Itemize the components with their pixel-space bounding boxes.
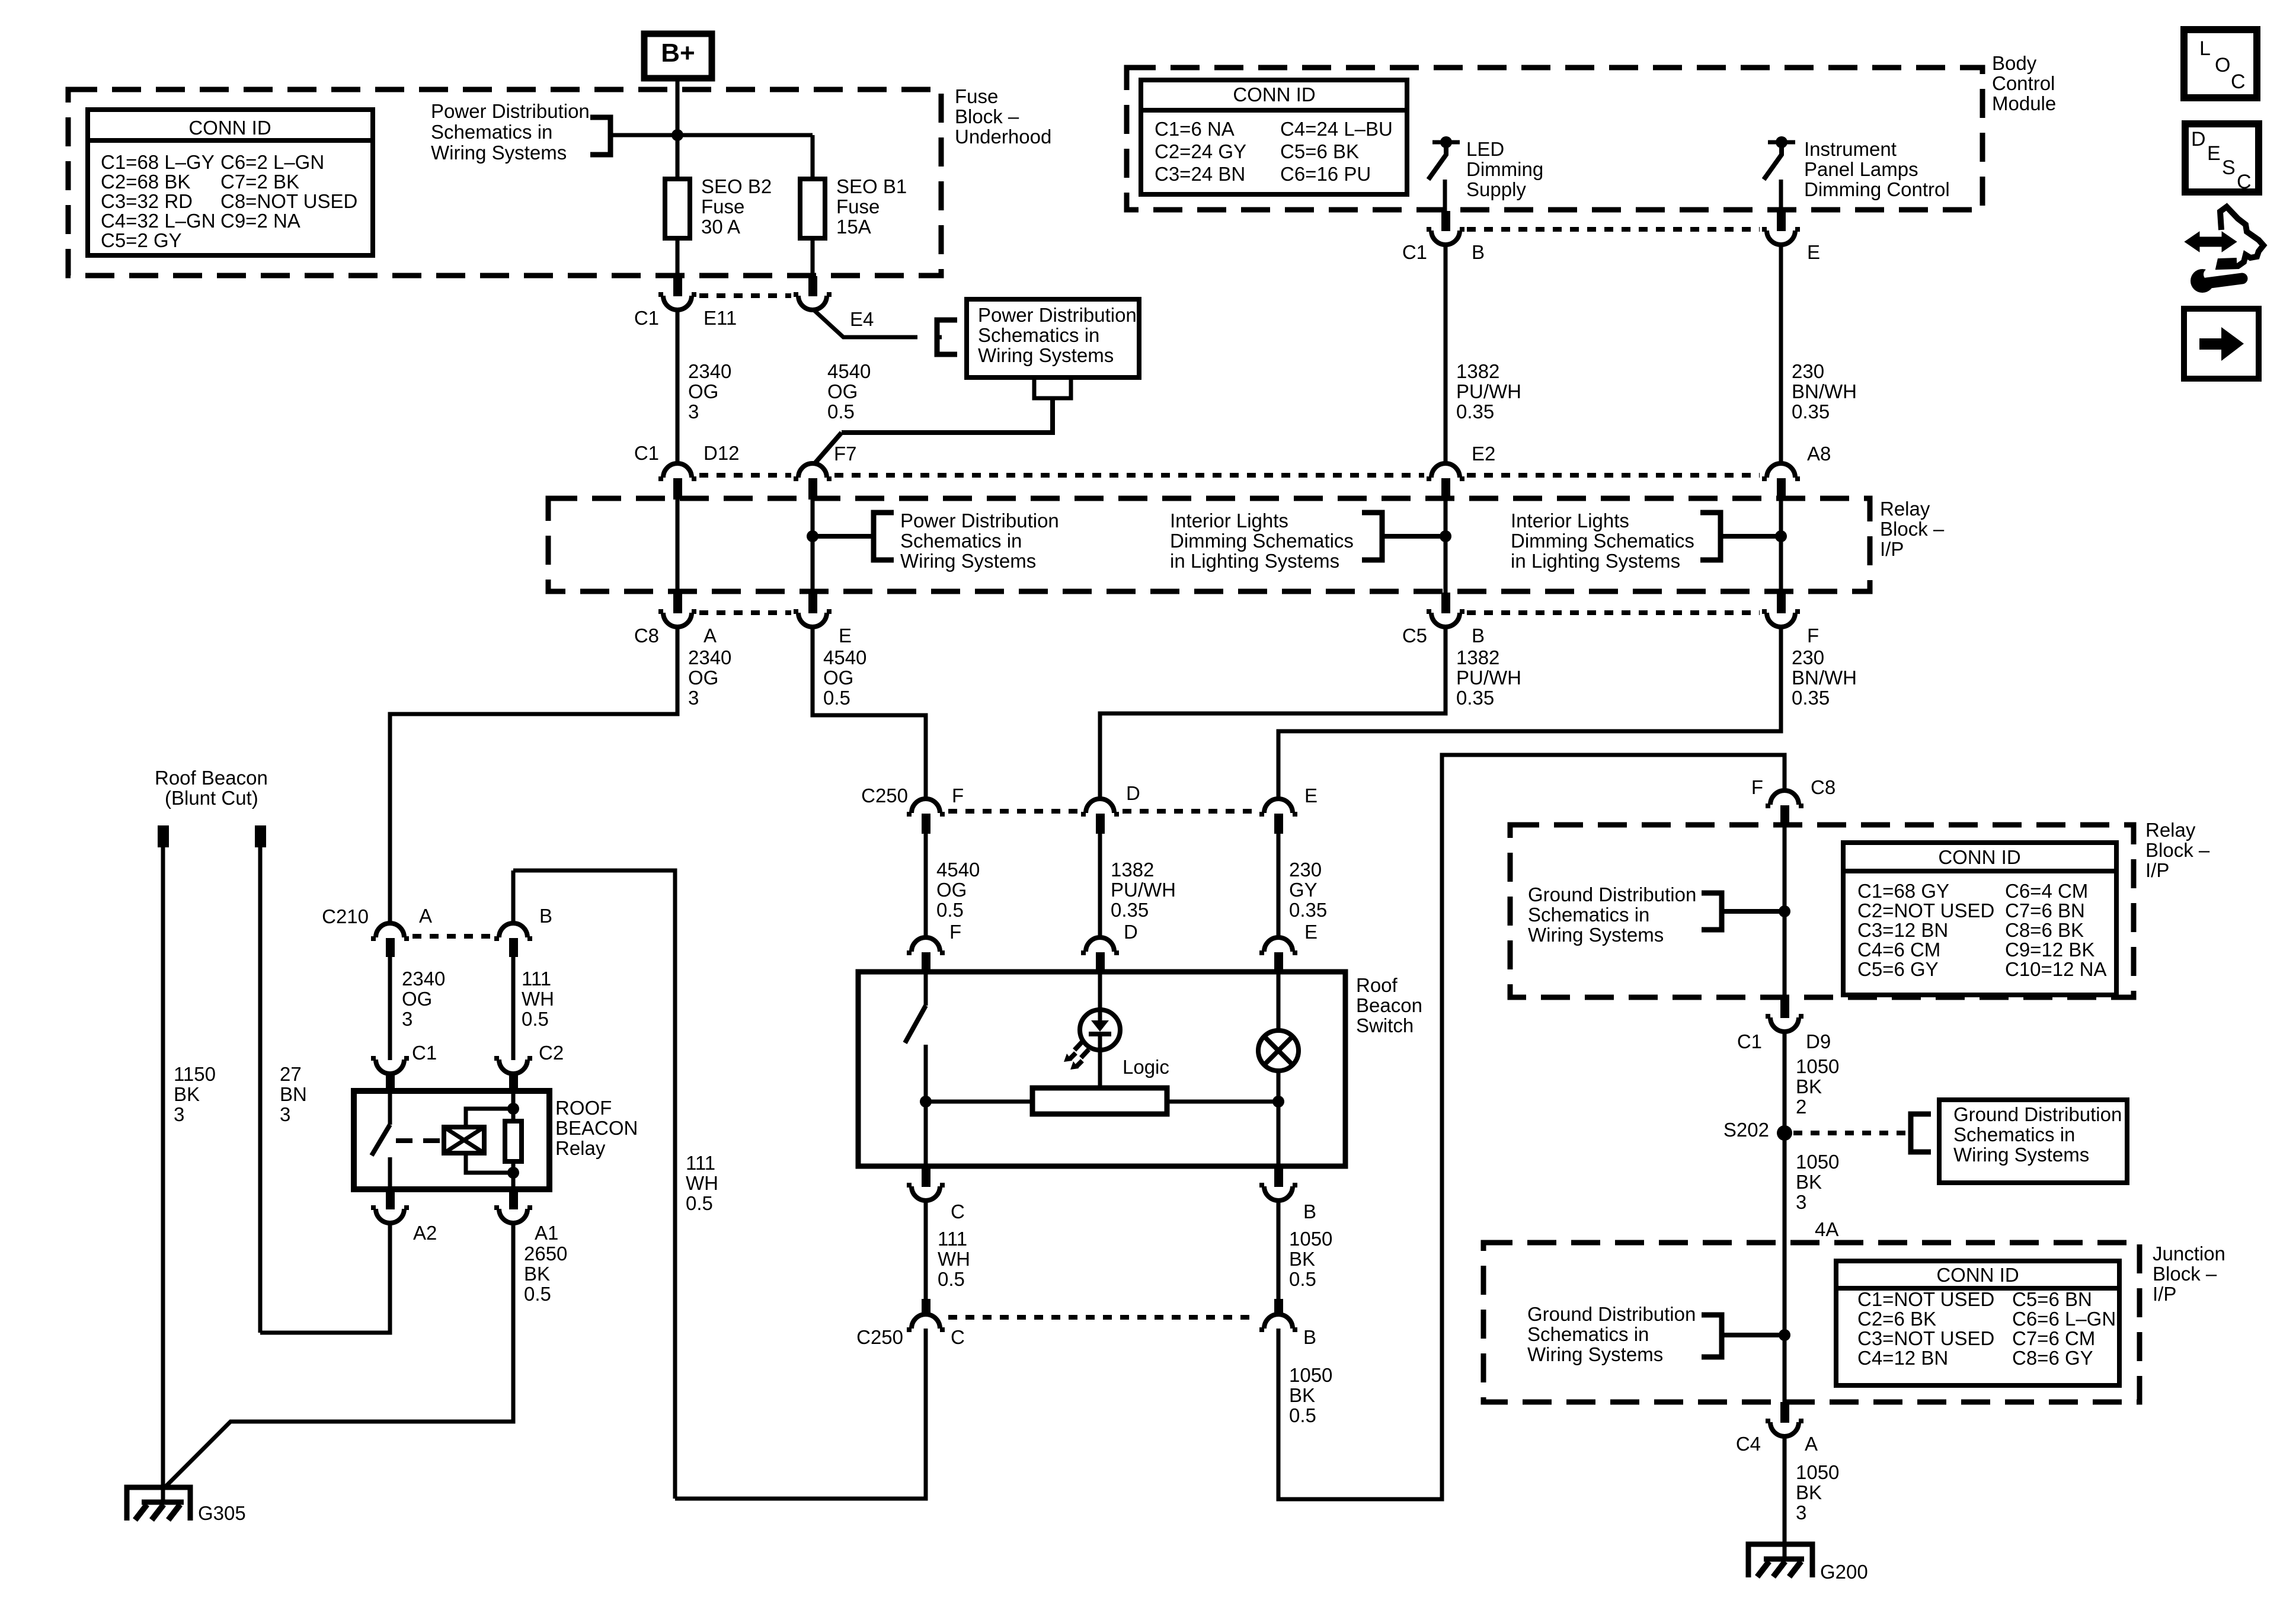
svg-text:0.5: 0.5: [938, 1268, 965, 1290]
connector C1-E11 pin: [673, 276, 682, 296]
wire C210 B to relay C2: [511, 957, 516, 1060]
svg-text:B: B: [1303, 1326, 1316, 1348]
connector C250 E dome: [1259, 799, 1297, 814]
svg-text:4540: 4540: [936, 859, 980, 881]
wire below switch blade: [924, 1045, 928, 1166]
connector dome F7: [794, 463, 832, 479]
blunt cut wire 27 BN: [258, 847, 263, 1333]
svg-text:E: E: [1304, 921, 1318, 943]
svg-text:0.35: 0.35: [1792, 401, 1830, 422]
svg-text:B: B: [1303, 1201, 1316, 1222]
connector C250-C dome: [907, 1314, 945, 1330]
connector row C cup B: [1427, 612, 1464, 627]
svg-text:0.5: 0.5: [823, 687, 850, 709]
CONN ID table (junction block): [1836, 1261, 2119, 1385]
svg-text:CONN ID: CONN ID: [188, 117, 271, 139]
svg-text:D: D: [1126, 782, 1140, 804]
svg-text:F7: F7: [834, 443, 857, 465]
connector switch-B cup: [1259, 1185, 1297, 1201]
relay mechanical linkage dashes: [396, 1138, 442, 1143]
svg-text:1382: 1382: [1456, 360, 1499, 382]
connector C4-A pin: [1780, 1402, 1789, 1423]
svg-text:O: O: [2215, 54, 2230, 76]
switch: instrument panel lamps dimming control output: [1768, 140, 1795, 145]
svg-text:230: 230: [1792, 360, 1824, 382]
svg-text:E: E: [839, 625, 852, 646]
wire diagonal into F7: [814, 433, 842, 465]
connector C1-E11 cup: [658, 295, 696, 310]
connector switch-D pin: [1096, 952, 1105, 974]
relay resistor: [511, 1091, 516, 1121]
svg-text:E: E: [1304, 785, 1318, 806]
svg-text:C4=24 L–BU: C4=24 L–BU: [1280, 118, 1393, 140]
svg-text:Ground Distribution: Ground Distribution: [1953, 1103, 2122, 1125]
svg-text:A: A: [1805, 1433, 1818, 1455]
relay coil parallel wiring: [466, 1109, 513, 1127]
svg-text:C3=12 BN: C3=12 BN: [1857, 919, 1948, 941]
svg-text:3: 3: [688, 401, 699, 422]
wire 1382 PU/WH from BCM B: [1444, 244, 1448, 463]
blunt cut wire 1150 BK: [161, 847, 165, 1502]
connector BCM C1-B pin: [1441, 211, 1450, 231]
connector C250-B pin: [1274, 1299, 1283, 1315]
svg-text:4540: 4540: [827, 360, 871, 382]
svg-text:Roof: Roof: [1356, 974, 1398, 996]
wire through relay block (4540): [811, 498, 815, 594]
svg-text:0.35: 0.35: [1792, 687, 1830, 709]
connector row C pin B: [1441, 593, 1450, 613]
svg-text:0.35: 0.35: [1111, 899, 1149, 921]
svg-text:A8: A8: [1807, 443, 1831, 465]
svg-text:C5=2 GY: C5=2 GY: [101, 229, 182, 251]
svg-text:in Lighting Systems: in Lighting Systems: [1511, 550, 1680, 572]
connector C250 F pin: [922, 814, 930, 834]
svg-text:C4=12 BN: C4=12 BN: [1857, 1347, 1948, 1369]
wire 111 WH riser from C210 B: [513, 870, 675, 1499]
svg-text:C: C: [2231, 71, 2246, 93]
svg-text:Power Distribution: Power Distribution: [900, 510, 1059, 532]
connector switch-B pin: [1274, 1166, 1283, 1187]
blunt cut wire 1150 BK terminal: [158, 825, 169, 847]
connector C1-D9 pin: [1780, 997, 1789, 1018]
svg-text:Schematics in: Schematics in: [978, 324, 1099, 346]
logic block: [1032, 1088, 1167, 1114]
svg-text:BK: BK: [1289, 1384, 1315, 1406]
connector pin F7: [808, 478, 817, 500]
svg-text:230: 230: [1792, 646, 1824, 668]
svg-text:Fuse: Fuse: [955, 85, 998, 107]
wire B down and right U to ground riser: [1278, 755, 1785, 1499]
svg-text:C6=2 L–GN: C6=2 L–GN: [220, 151, 324, 173]
junction block dashed boundary: [1483, 1243, 2140, 1402]
svg-text:C3=NOT USED: C3=NOT USED: [1857, 1327, 1994, 1349]
relay block 2 dashed boundary: [1510, 825, 2134, 997]
connector switch-E pin: [1274, 952, 1283, 974]
dotted connector line B-E (BCM): [1467, 227, 1760, 232]
body control module dashed boundary: [1127, 68, 1982, 210]
svg-text:OG: OG: [402, 988, 432, 1010]
wire lamp down: [1277, 1071, 1281, 1166]
connector C1-E4 pin: [808, 276, 817, 296]
svg-text:Fuse: Fuse: [701, 196, 744, 217]
node lamp to logic: [1272, 1096, 1284, 1108]
svg-text:C7=6 BN: C7=6 BN: [2005, 900, 2085, 921]
switch: LED dimming supply output: [1432, 140, 1460, 145]
svg-text:1382: 1382: [1456, 646, 1499, 668]
svg-text:Wiring Systems: Wiring Systems: [978, 344, 1114, 366]
svg-text:1050: 1050: [1796, 1055, 1839, 1077]
svg-text:Dimming Schematics: Dimming Schematics: [1170, 530, 1354, 552]
DESC button: [2185, 124, 2259, 192]
lamp (roof beacon indicator): [1258, 1030, 1299, 1071]
svg-text:Module: Module: [1992, 92, 2056, 114]
node at B+ feed junction: [671, 129, 683, 141]
connector switch-F pin: [922, 952, 930, 974]
svg-text:0.5: 0.5: [936, 899, 964, 921]
svg-text:Relay: Relay: [1880, 498, 1930, 520]
dotted connector line D-E (C250): [1123, 809, 1256, 814]
svg-text:C1: C1: [634, 307, 659, 329]
svg-text:111: 111: [938, 1228, 967, 1250]
svg-text:Dimming Control: Dimming Control: [1804, 178, 1950, 200]
connector switch-F dome: [907, 937, 945, 953]
connector pin A8: [1777, 478, 1786, 500]
svg-text:A: A: [703, 625, 717, 646]
callout bracket + wire (ground dist relay block 2): [1702, 893, 1722, 930]
svg-text:Schematics in: Schematics in: [431, 121, 552, 143]
svg-text:Relay: Relay: [2145, 819, 2196, 841]
svg-text:E2: E2: [1472, 443, 1495, 465]
callout bracket (power distribution mid): [937, 320, 957, 354]
connector C210-A dome: [371, 923, 409, 939]
connector dome D12: [658, 463, 696, 479]
wire logic to lamp node: [1167, 1100, 1278, 1104]
svg-text:Roof Beacon: Roof Beacon: [155, 767, 268, 789]
connector C250 E pin: [1274, 814, 1283, 834]
wire B+ down to fuse SEO B2: [676, 78, 680, 276]
svg-text:0.5: 0.5: [522, 1008, 549, 1030]
wire 230 BN/WH from BCM E: [1779, 244, 1783, 463]
connector switch-C cup: [907, 1185, 945, 1201]
callout stub below box to F7: [1034, 377, 1071, 398]
wire 230 GY to switch: [1277, 833, 1281, 939]
svg-text:C9=12 BK: C9=12 BK: [2005, 939, 2094, 961]
relay block I/P dashed boundary: [548, 498, 1870, 591]
svg-text:D9: D9: [1806, 1030, 1831, 1052]
svg-text:D: D: [2191, 128, 2206, 151]
connector relay A2 pin: [386, 1189, 395, 1209]
svg-text:C: C: [951, 1201, 965, 1222]
svg-text:Schematics in: Schematics in: [1528, 904, 1649, 926]
svg-text:1050: 1050: [1796, 1461, 1839, 1483]
connector row C pin A: [673, 593, 682, 613]
svg-text:OG: OG: [936, 879, 967, 901]
wire 1382 route to C250 D: [1100, 627, 1446, 800]
connector dome E2: [1427, 463, 1464, 479]
svg-text:C7=6 CM: C7=6 CM: [2012, 1327, 2095, 1349]
svg-text:CONN ID: CONN ID: [1938, 846, 2020, 868]
connector C250-C pin: [922, 1299, 930, 1315]
wire from bracket to B+ node: [610, 133, 813, 137]
splice S202: [1777, 1125, 1792, 1141]
svg-text:0.5: 0.5: [827, 401, 855, 422]
connector pin D12: [673, 478, 682, 500]
svg-text:1050: 1050: [1289, 1228, 1332, 1250]
fuse SEO B1 15A: [800, 179, 825, 238]
connector BCM E cup: [1762, 229, 1800, 245]
svg-text:CONN ID: CONN ID: [1233, 84, 1315, 105]
connector relay C1 pin: [386, 1073, 395, 1093]
svg-text:Block –: Block –: [2145, 839, 2210, 861]
svg-text:Beacon: Beacon: [1356, 994, 1422, 1016]
svg-text:SEO B1: SEO B1: [836, 175, 907, 197]
node switch to logic: [920, 1096, 932, 1108]
svg-text:A: A: [419, 905, 432, 927]
wire 2340 OG from E11 down: [676, 309, 680, 463]
svg-text:PU/WH: PU/WH: [1456, 667, 1521, 689]
svg-text:C5=6 GY: C5=6 GY: [1857, 958, 1939, 980]
svg-text:1050: 1050: [1289, 1364, 1332, 1386]
dotted connector line B-F (row C): [1467, 610, 1760, 615]
connector C250 D pin: [1096, 814, 1105, 834]
wire 1050 BK 3 to G200: [1783, 1436, 1787, 1559]
wire E into lamp: [1277, 972, 1281, 1030]
connector C250-B dome: [1259, 1314, 1297, 1330]
wire 230 route to C250 E: [1278, 627, 1781, 800]
svg-text:C: C: [2237, 171, 2252, 193]
svg-text:3: 3: [1796, 1191, 1806, 1213]
svg-text:ROOF: ROOF: [555, 1097, 612, 1119]
svg-text:Instrument: Instrument: [1804, 138, 1897, 160]
svg-text:Junction: Junction: [2153, 1243, 2225, 1265]
connector switch-D dome: [1081, 937, 1119, 953]
svg-text:Wiring Systems: Wiring Systems: [900, 550, 1036, 572]
connector C4-A cup: [1766, 1421, 1803, 1436]
LED indicator (roof beacon switch): [1080, 1010, 1120, 1050]
wire C down and left U to 111 WH riser: [675, 1329, 926, 1499]
node on 4540 wire: [807, 530, 818, 542]
svg-text:C2: C2: [539, 1042, 564, 1064]
svg-text:C1: C1: [412, 1042, 437, 1064]
svg-text:Relay: Relay: [555, 1137, 606, 1159]
svg-text:B: B: [1472, 625, 1485, 646]
svg-text:BK: BK: [1796, 1076, 1822, 1097]
svg-text:Block –: Block –: [2153, 1263, 2217, 1285]
callout bracket + wire (relay block power dist): [874, 513, 894, 560]
svg-text:C4=32 L–GN: C4=32 L–GN: [101, 210, 216, 232]
svg-text:C6=4 CM: C6=4 CM: [2005, 880, 2088, 902]
svg-text:Interior Lights: Interior Lights: [1511, 510, 1629, 532]
wire through junction block: [1783, 1243, 1787, 1402]
svg-text:3: 3: [280, 1103, 290, 1125]
svg-text:C5: C5: [1402, 625, 1427, 646]
svg-text:WH: WH: [938, 1248, 970, 1270]
callout bracket + wire (junction block): [1702, 1315, 1722, 1357]
svg-text:Logic: Logic: [1123, 1056, 1169, 1078]
connector BCM E pin: [1777, 211, 1786, 231]
svg-text:S202: S202: [1723, 1119, 1769, 1141]
svg-text:WH: WH: [686, 1172, 718, 1194]
svg-text:E4: E4: [850, 308, 874, 330]
svg-text:111: 111: [522, 968, 551, 990]
svg-text:LED: LED: [1466, 138, 1504, 160]
svg-text:C3=32 RD: C3=32 RD: [101, 190, 193, 212]
svg-text:C: C: [951, 1326, 965, 1348]
node on 230 wire: [1775, 530, 1787, 542]
svg-text:1382: 1382: [1111, 859, 1154, 881]
svg-text:Ground Distribution: Ground Distribution: [1527, 1303, 1696, 1325]
callout bracket (S202): [1911, 1114, 1931, 1152]
relay coil: [444, 1127, 484, 1153]
svg-text:1050: 1050: [1796, 1151, 1839, 1173]
svg-text:F: F: [952, 785, 964, 806]
svg-text:C4=6 CM: C4=6 CM: [1857, 939, 1940, 961]
connector F-C8 pin: [1780, 805, 1789, 827]
svg-text:BN/WH: BN/WH: [1792, 667, 1857, 689]
svg-text:PU/WH: PU/WH: [1456, 380, 1521, 402]
svg-text:111: 111: [686, 1152, 715, 1174]
svg-text:C4: C4: [1736, 1433, 1761, 1455]
svg-text:Control: Control: [1992, 72, 2055, 94]
svg-text:C1: C1: [1737, 1030, 1762, 1052]
svg-text:C5=6 BN: C5=6 BN: [2012, 1288, 2092, 1310]
svg-text:B+: B+: [661, 39, 695, 68]
wire A2 to blunt 27 BN: [260, 1223, 390, 1333]
node ground dist (junction block): [1779, 1329, 1790, 1341]
svg-text:C7=2 BK: C7=2 BK: [220, 171, 299, 193]
svg-text:B: B: [539, 905, 552, 927]
svg-text:C6=16 PU: C6=16 PU: [1280, 163, 1371, 185]
callout box: Ground Distribution Schematics (S202): [1939, 1100, 2127, 1183]
ground G200: [1748, 1544, 1812, 1577]
svg-text:WH: WH: [522, 988, 554, 1010]
blunt cut wire 27 BN terminal: [255, 825, 266, 847]
svg-text:C8: C8: [1811, 776, 1835, 798]
B+ power symbol: [644, 34, 712, 78]
dotted connector line A-B (C210): [412, 934, 492, 939]
svg-text:OG: OG: [823, 667, 853, 689]
wire A1 2650 BK to G305: [164, 1223, 513, 1489]
svg-text:Schematics in: Schematics in: [1953, 1124, 2075, 1145]
connector relay A2 cup: [371, 1208, 409, 1223]
svg-text:OG: OG: [688, 667, 718, 689]
svg-text:Panel Lamps: Panel Lamps: [1804, 158, 1918, 180]
svg-text:1150: 1150: [174, 1063, 216, 1085]
svg-text:3: 3: [174, 1103, 184, 1125]
svg-text:OG: OG: [827, 380, 858, 402]
svg-text:CONN ID: CONN ID: [1936, 1264, 2019, 1286]
connector F-C8 dome: [1766, 790, 1803, 806]
dotted connector line E2-A8: [1467, 473, 1760, 478]
svg-text:C3=24 BN: C3=24 BN: [1155, 163, 1245, 185]
svg-text:Wiring Systems: Wiring Systems: [431, 142, 567, 164]
svg-text:SEO B2: SEO B2: [701, 175, 772, 197]
wire 1050 BK 3 below S202: [1783, 1140, 1787, 1243]
svg-text:BK: BK: [1796, 1171, 1822, 1193]
svg-text:Body: Body: [1992, 52, 2037, 74]
connector C210-B pin: [509, 938, 518, 957]
svg-text:C1=68 GY: C1=68 GY: [1857, 880, 1949, 902]
wire 111 WH from C: [924, 1201, 928, 1299]
CONN ID table (relay block 2): [1843, 843, 2116, 995]
wire 1382 PU/WH to switch: [1098, 833, 1102, 939]
wire 4540 route to C250 F: [813, 627, 926, 800]
wire 4540 OG to switch: [924, 833, 928, 939]
wire through relay block (230): [1779, 498, 1783, 594]
node on 1382 wire: [1440, 530, 1451, 542]
wire switch node to logic: [926, 1100, 1032, 1104]
wire through relay block (2340): [676, 498, 680, 594]
svg-text:4A: 4A: [1815, 1218, 1838, 1240]
svg-text:I/P: I/P: [2145, 859, 2169, 881]
dotted connector line F7-E2: [834, 473, 1424, 478]
svg-text:3: 3: [402, 1008, 412, 1030]
svg-text:2340: 2340: [688, 646, 731, 668]
svg-text:2340: 2340: [402, 968, 445, 990]
connector row C pin E: [808, 593, 817, 613]
fuse block underhood dashed boundary: [68, 89, 941, 276]
wire D into LED: [1098, 972, 1102, 1020]
svg-text:Dimming Schematics: Dimming Schematics: [1511, 530, 1694, 552]
svg-text:B: B: [1472, 241, 1485, 263]
svg-text:C250: C250: [861, 785, 908, 806]
fuse SEO B2 30A: [665, 179, 690, 238]
connector relay C2 pin: [509, 1073, 518, 1093]
callout bracket + wire (interior lights 1): [1362, 513, 1382, 560]
svg-text:E: E: [2207, 142, 2221, 165]
svg-text:Wiring Systems: Wiring Systems: [1953, 1144, 2089, 1166]
connector row C cup F: [1762, 612, 1800, 627]
svg-text:3: 3: [1796, 1502, 1806, 1523]
svg-text:C2=6 BK: C2=6 BK: [1857, 1308, 1936, 1330]
svg-text:BK: BK: [1289, 1248, 1315, 1270]
svg-text:4540: 4540: [823, 646, 866, 668]
svg-text:A1: A1: [535, 1222, 558, 1244]
svg-text:0.35: 0.35: [1456, 687, 1494, 709]
svg-text:G305: G305: [198, 1502, 246, 1524]
connector view icon (arrow and wrench): [2186, 233, 2236, 251]
dotted connector line C-B (C250): [948, 1315, 1256, 1320]
svg-text:C9=2 NA: C9=2 NA: [220, 210, 300, 232]
svg-text:C2=68 BK: C2=68 BK: [101, 171, 190, 193]
svg-text:3: 3: [688, 687, 699, 709]
connector pin E2: [1441, 478, 1450, 500]
svg-text:Schematics in: Schematics in: [900, 530, 1022, 552]
callout bracket (top power distribution): [590, 117, 610, 155]
svg-text:F: F: [1751, 776, 1763, 798]
svg-text:30 A: 30 A: [701, 216, 740, 238]
svg-text:S: S: [2222, 156, 2236, 179]
svg-text:E11: E11: [703, 307, 737, 329]
LOC button: [2184, 30, 2257, 98]
connector relay C2 cup: [494, 1058, 532, 1074]
svg-text:C1: C1: [1402, 241, 1427, 263]
svg-text:15A: 15A: [836, 216, 871, 238]
svg-text:F: F: [949, 921, 961, 943]
svg-text:C1=68 L–GY: C1=68 L–GY: [101, 151, 215, 173]
svg-text:0.5: 0.5: [524, 1283, 551, 1305]
svg-text:C2=NOT USED: C2=NOT USED: [1857, 900, 1994, 921]
connector row C pin F: [1777, 593, 1786, 613]
connector row C cup A: [658, 612, 696, 627]
node coil bottom: [507, 1167, 519, 1179]
svg-text:(Blunt Cut): (Blunt Cut): [165, 787, 258, 809]
connector relay A1 cup: [494, 1208, 532, 1223]
CONN ID table (BCM): [1141, 80, 1407, 194]
callout box: Power Distribution Schematics in Wiring Systems: [967, 299, 1139, 377]
svg-text:0.35: 0.35: [1289, 899, 1327, 921]
svg-text:C1=NOT USED: C1=NOT USED: [1857, 1288, 1994, 1310]
